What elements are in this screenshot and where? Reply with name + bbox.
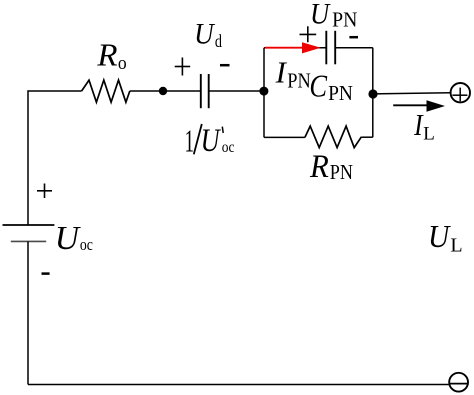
label Ud	[194, 19, 222, 52]
wire: Ud to parallel RC block	[209, 90, 264, 92]
svg-text:1: 1	[185, 124, 195, 159]
wire: Uoc positive terminal up and right to Ro	[28, 91, 82, 225]
capacitor Ud left plate	[200, 74, 202, 108]
label UPN	[310, 0, 358, 31]
wire: bottom return to negative output terminal	[28, 384, 449, 386]
wire: Uoc negative terminal down	[27, 242, 29, 385]
svg-text:U: U	[428, 219, 451, 254]
svg-text:oc: oc	[80, 236, 93, 255]
svg-text:o: o	[118, 52, 127, 73]
label - polarity of Uoc	[42, 272, 50, 275]
voltage source Uoc (battery) short negative plate	[11, 240, 46, 242]
resistor Ro zigzag	[82, 80, 130, 102]
svg-text:L: L	[450, 234, 462, 256]
label IL	[413, 109, 435, 144]
svg-text:R: R	[96, 37, 117, 72]
svg-text:PN: PN	[328, 82, 353, 105]
svg-text:d: d	[215, 32, 222, 52]
svg-text:I: I	[275, 56, 288, 90]
wire: top branch left segment to CPN	[264, 47, 327, 49]
svg-text:R: R	[309, 147, 329, 184]
label Ro	[96, 37, 126, 73]
label + polarity of Ud	[175, 58, 191, 76]
current arrow IPN (red)	[265, 42, 321, 53]
svg-text:C: C	[309, 70, 327, 105]
label Uoc	[55, 220, 93, 257]
wire: right vertical branch of parallel block	[372, 48, 374, 138]
wire: left vertical branch of parallel block	[263, 48, 265, 138]
wire: top branch right segment from CPN	[335, 47, 373, 49]
wire: right node to positive output terminal	[373, 93, 451, 94]
label + polarity of Uoc	[37, 184, 52, 199]
node junction dot between Ro and Ud	[159, 87, 167, 95]
capacitor CPN left plate	[325, 31, 327, 65]
label CPN	[309, 70, 353, 105]
node junction dot left of parallel block	[259, 87, 268, 96]
label - polarity of UPN	[349, 36, 358, 39]
svg-text:L: L	[423, 124, 435, 145]
svg-text:PN: PN	[332, 9, 357, 32]
label - polarity of Ud	[220, 64, 230, 67]
wire: bottom branch right segment from RPN	[361, 136, 372, 138]
negative output terminal circle with minus	[449, 373, 468, 392]
svg-text:U: U	[194, 19, 215, 51]
svg-text:U: U	[310, 0, 331, 31]
resistor RPN zigzag	[305, 126, 362, 148]
label + polarity of UPN	[300, 26, 317, 42]
svg-text:U: U	[201, 124, 221, 159]
wire: bottom branch left segment to RPN	[264, 136, 305, 138]
label UL load voltage	[428, 219, 463, 256]
svg-text:oc: oc	[222, 139, 235, 156]
node junction dot right of parallel block	[368, 89, 377, 98]
capacitor Ud right plate	[208, 74, 210, 108]
wire: Ro to capacitor Ud through junction	[130, 90, 202, 92]
label RPN	[309, 147, 353, 185]
svg-text:PN: PN	[330, 161, 353, 185]
label IPN	[275, 56, 311, 93]
svg-text:U: U	[55, 220, 82, 257]
current arrow IL	[393, 100, 445, 112]
positive output terminal circle with plus	[451, 83, 470, 102]
svg-text:PN: PN	[287, 69, 310, 93]
capacitor CPN right plate	[334, 31, 336, 65]
voltage source Uoc (battery) long positive plate	[3, 224, 55, 226]
label 1/U'oc value under Ud	[185, 124, 235, 159]
